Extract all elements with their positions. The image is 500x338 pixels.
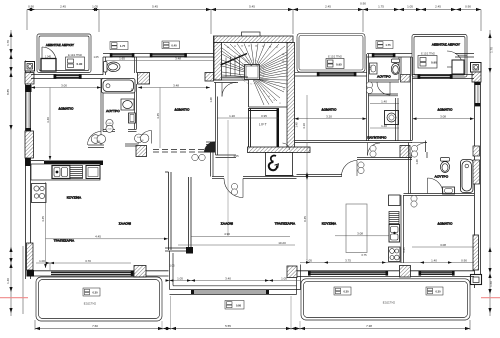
balcony right legends <box>334 287 443 295</box>
boiler room right <box>412 35 467 78</box>
hatched pier left middle <box>25 131 34 158</box>
dimension line bottom <box>35 320 470 330</box>
toilet lower right <box>440 158 449 173</box>
lower bathroom right walls <box>409 141 428 194</box>
hatched pier recess right <box>287 266 297 278</box>
bedroom1 bottom wall <box>44 161 103 166</box>
svg-text:0.95: 0.95 <box>261 114 267 118</box>
svg-text:ΛΟΥΤΡΟ: ΛΟΥΤΡΟ <box>106 109 120 113</box>
kitchen right island <box>346 204 367 253</box>
svg-text:5.55: 5.55 <box>225 324 231 328</box>
svg-text:ΛΕΒΗΤΑΣ ΑΕΡΙΟΥ: ΛΕΒΗΤΑΣ ΑΕΡΙΟΥ <box>46 43 74 47</box>
hatched pier bottom left-center <box>134 266 146 278</box>
bedroom1 dims <box>31 88 101 161</box>
balcony left dims <box>36 263 131 270</box>
lift dimension <box>217 117 279 119</box>
wall column box top-left <box>25 62 35 72</box>
svg-text:3.08: 3.08 <box>357 232 363 236</box>
svg-text:4.45: 4.45 <box>95 235 101 239</box>
dim line dining/kitchen <box>306 143 308 260</box>
svg-text:LIFT: LIFT <box>259 123 267 127</box>
svg-text:0.45: 0.45 <box>402 247 406 253</box>
svg-text:4.05: 4.05 <box>233 154 239 158</box>
svg-text:0.30: 0.30 <box>92 291 98 295</box>
small wall dims <box>93 55 419 268</box>
wardrobe dashed line bedroom2 <box>153 150 206 153</box>
stair numbers <box>227 46 286 106</box>
svg-text:1.20: 1.20 <box>229 114 235 118</box>
svg-text:2.45: 2.45 <box>60 5 66 9</box>
bedroom bottom-right walls <box>404 194 475 196</box>
hatched pier right of upper bath <box>401 75 411 83</box>
svg-text:7.38: 7.38 <box>366 324 372 328</box>
cooktop left <box>32 184 47 203</box>
boiler equipment box left <box>41 59 56 72</box>
svg-text:ΚΟΥΖΙΝΑ: ΚΟΥΖΙΝΑ <box>322 222 337 226</box>
boiler room left door <box>42 47 56 61</box>
bottom wall right apartment <box>297 271 475 277</box>
legend box boiler right <box>418 56 437 69</box>
balcony left legend <box>83 288 100 296</box>
laundry door badges <box>370 145 376 157</box>
svg-text:1.05: 1.05 <box>169 264 175 268</box>
bedroom3 walls <box>295 54 413 143</box>
hatched pier right middle <box>473 235 479 270</box>
hatched pier bottom right-center <box>400 266 411 278</box>
left apartment bedroom1 right wall <box>101 79 103 132</box>
svg-text:2.45: 2.45 <box>435 5 441 9</box>
lower bathroom door arc <box>411 143 427 159</box>
recess dims <box>170 236 301 280</box>
svg-text:3.40: 3.40 <box>225 276 231 280</box>
upper bathroom door badges <box>366 82 372 94</box>
legend box terrace <box>326 59 344 69</box>
laundry door arc <box>368 143 381 156</box>
svg-text:1.48: 1.48 <box>295 122 299 128</box>
legend box top 2 <box>162 41 180 49</box>
svg-text:1.40: 1.40 <box>381 124 387 128</box>
svg-text:1.40: 1.40 <box>368 65 372 71</box>
recess window band <box>191 290 269 295</box>
svg-text:3.40: 3.40 <box>46 117 50 123</box>
cabinet bathroom1 <box>129 113 136 123</box>
svg-text:1.75: 1.75 <box>385 43 391 47</box>
stairwell walls hatched <box>214 36 293 43</box>
svg-text:4.90: 4.90 <box>224 232 230 236</box>
svg-text:3.20: 3.20 <box>326 115 332 119</box>
washbasin bathroom1 <box>121 99 134 110</box>
bathroom1 door badges <box>91 119 113 143</box>
svg-text:4.45: 4.45 <box>156 113 160 119</box>
hall door arc 2 <box>342 161 358 177</box>
svg-text:3.70: 3.70 <box>85 259 91 263</box>
terrace bottom wall / bedroom3 top with window <box>295 72 367 76</box>
kitchen sink unit left <box>52 166 70 179</box>
bottom right dims <box>300 262 474 264</box>
upper bathroom right walls <box>369 57 402 82</box>
kitchen left counter row <box>31 164 100 180</box>
svg-text:ΤΡΑΠΕΖΑΡΙΑ: ΤΡΑΠΕΖΑΡΙΑ <box>54 239 75 243</box>
top wall left section with windows <box>103 54 214 58</box>
door arc stair to bedroom3 <box>283 143 290 150</box>
svg-text:3.08: 3.08 <box>440 115 446 119</box>
toilet bathroom1 <box>104 62 121 73</box>
recess step walls <box>170 251 297 295</box>
svg-text:0.40: 0.40 <box>171 43 177 47</box>
window bottom right 2 <box>421 271 453 275</box>
kitchen right sink <box>389 225 400 243</box>
right apartment entrance door arc <box>224 179 243 198</box>
hatched pier right top <box>472 72 481 82</box>
dimension line left <box>11 30 300 330</box>
kitchen/bedroom wall right <box>401 195 404 263</box>
svg-text:1.05: 1.05 <box>407 5 413 9</box>
fridge left <box>86 166 100 179</box>
lobby to salon wall with entrance door <box>212 177 297 179</box>
staircase center newel square <box>245 65 260 80</box>
hatched pier below stair left <box>205 73 214 82</box>
legend box boiler left <box>66 57 85 70</box>
washing machine <box>385 111 399 125</box>
window below boiler left <box>56 75 79 78</box>
recess right pier <box>269 265 301 295</box>
balcony left <box>36 277 162 321</box>
svg-text:0.80: 0.80 <box>108 123 112 125</box>
svg-text:0.45: 0.45 <box>303 216 307 222</box>
toilet upper right <box>391 59 399 75</box>
svg-text:0.90: 0.90 <box>465 5 471 9</box>
svg-text:1.65: 1.65 <box>119 57 125 61</box>
right apartment lobby walls <box>216 83 237 158</box>
center legend box <box>225 301 244 310</box>
hall right apartment walls <box>297 158 413 177</box>
svg-text:1.40: 1.40 <box>6 278 10 284</box>
svg-text:1.40: 1.40 <box>381 99 387 103</box>
hatched pier left top <box>25 73 34 85</box>
bottom wall left apartment with window <box>34 271 169 276</box>
svg-text:0.90: 0.90 <box>431 61 437 65</box>
svg-text:8.85: 8.85 <box>6 89 10 95</box>
bedroom3 dims <box>295 95 367 140</box>
door badge right entrance <box>231 183 237 195</box>
divider pier between salons <box>165 172 191 250</box>
hatched wall band below lift <box>248 147 311 153</box>
bedroom2 dims <box>105 60 213 148</box>
bedroom bottom-right door arc <box>428 178 444 194</box>
bathtub lower right <box>461 160 474 193</box>
svg-text:3.48: 3.48 <box>175 57 181 61</box>
legend box top 3 <box>376 41 393 49</box>
svg-text:0.90: 0.90 <box>360 2 366 6</box>
window left wall upper <box>27 92 30 128</box>
hatched pier next to bathroom1 <box>138 73 150 85</box>
wall column box balcony right <box>471 275 482 285</box>
svg-text:0.95: 0.95 <box>336 63 342 67</box>
svg-text:1.75: 1.75 <box>378 5 384 9</box>
svg-text:2.20: 2.20 <box>97 141 101 143</box>
svg-text:3.75: 3.75 <box>345 258 351 262</box>
bedroom bottom-right door badges <box>411 195 417 207</box>
dishwasher striped left <box>70 166 83 179</box>
svg-text:ΔΩΜΑΤΙΟ: ΔΩΜΑΤΙΟ <box>438 222 453 226</box>
laundry dims <box>370 104 399 129</box>
solid wall corner bottom-left <box>27 270 35 277</box>
wall column box top-right <box>471 63 482 73</box>
svg-text:5.45: 5.45 <box>249 5 255 9</box>
bathtub bathroom1 <box>102 79 136 94</box>
hatched pier hall right <box>400 146 410 158</box>
svg-text:ΔΩΜΑΤΙΟ: ΔΩΜΑΤΙΟ <box>59 107 74 111</box>
bedroom2 door badges <box>135 134 149 143</box>
kitchen right dim <box>335 235 389 237</box>
svg-text:ΛΟΥΤΡΟ: ΛΟΥΤΡΟ <box>435 175 449 179</box>
red marker line left <box>0 297 28 299</box>
window top-left 2 <box>152 54 185 57</box>
solid wall segment left <box>25 158 31 166</box>
svg-text:3.08: 3.08 <box>440 243 446 247</box>
svg-text:1.05: 1.05 <box>281 276 287 280</box>
closet with hook symbol <box>266 153 293 176</box>
svg-text:1.05: 1.05 <box>92 5 98 9</box>
boiler room left <box>37 34 91 73</box>
terrace room top right <box>297 34 365 73</box>
svg-text:ΛΕΒΗΤΑΣ ΑΕΡΙΟΥ: ΛΕΒΗΤΑΣ ΑΕΡΙΟΥ <box>432 43 460 47</box>
left apartment entrance door arc <box>222 83 236 97</box>
left apartment living dims <box>46 182 169 268</box>
lift shaft <box>249 109 279 149</box>
svg-text:2.20: 2.20 <box>140 140 144 142</box>
svg-text:Ε 12/2.7ΤΜ2: Ε 12/2.7ΤΜ2 <box>421 53 435 56</box>
dimension line right <box>489 30 491 316</box>
svg-text:1.70: 1.70 <box>130 88 134 94</box>
svg-text:1.00: 1.00 <box>39 259 45 263</box>
svg-text:4.45: 4.45 <box>41 216 45 222</box>
hall door badges 2 <box>358 162 364 174</box>
divider wall left apt / stairwell block <box>206 142 216 177</box>
svg-text:ΣΑΛΟΝΙ: ΣΑΛΟΝΙ <box>221 222 233 226</box>
svg-text:2.20: 2.20 <box>108 129 112 131</box>
svg-text:1.70: 1.70 <box>490 47 494 53</box>
svg-text:7.60: 7.60 <box>92 324 98 328</box>
outer wall right <box>475 63 481 289</box>
svg-text:1.60: 1.60 <box>489 281 493 287</box>
svg-text:1.48: 1.48 <box>415 159 419 165</box>
svg-text:ΔΩΜΑΤΙΟ: ΔΩΜΑΤΙΟ <box>322 108 337 112</box>
svg-text:1.05: 1.05 <box>306 258 312 262</box>
kitchen right cooktop <box>389 247 401 262</box>
svg-text:0.90: 0.90 <box>461 258 467 262</box>
svg-text:5.45: 5.45 <box>152 5 158 9</box>
top wall right section with window <box>367 54 412 58</box>
svg-text:1.00: 1.00 <box>137 137 141 139</box>
washbasin lower right <box>443 187 455 194</box>
boiler room right door <box>447 51 463 67</box>
hatched pier left lower <box>27 243 34 270</box>
svg-text:1.75: 1.75 <box>120 44 126 48</box>
bedroom4 left wall <box>411 57 413 141</box>
lower bathroom door badges <box>411 145 417 157</box>
bathroom1 walls <box>103 57 137 132</box>
svg-text:0.80: 0.80 <box>236 303 242 307</box>
svg-text:ΕΞΩΣΤΗΣ: ΕΞΩΣΤΗΣ <box>84 303 97 306</box>
svg-text:1.70: 1.70 <box>6 40 10 46</box>
upper bathroom door arc <box>377 82 390 95</box>
svg-text:ΠΛΥΝΤΗΡΙΟ: ΠΛΥΝΤΗΡΙΟ <box>367 136 387 140</box>
svg-text:4.10: 4.10 <box>302 123 306 129</box>
svg-text:3.48: 3.48 <box>173 83 179 87</box>
svg-text:0.90: 0.90 <box>77 62 83 66</box>
notch wall west of bathroom1 <box>103 57 106 75</box>
wall below boiler right with window <box>412 75 474 79</box>
bedroom2 door arc <box>139 131 152 144</box>
dimension line top <box>27 10 481 35</box>
svg-text:3.00: 3.00 <box>61 83 67 87</box>
top wall right of boiler right <box>455 54 474 58</box>
svg-text:ΔΩΜΑΤΙΟ: ΔΩΜΑΤΙΟ <box>175 108 190 112</box>
svg-text:10.20: 10.20 <box>278 241 286 245</box>
svg-text:0.90: 0.90 <box>28 5 34 9</box>
svg-text:0.30: 0.30 <box>343 290 349 294</box>
svg-text:Ε 12/2.7ΤΜ2: Ε 12/2.7ΤΜ2 <box>328 56 342 59</box>
svg-text:ΛΟΥΤΡΟ: ΛΟΥΤΡΟ <box>377 75 391 79</box>
dim extension line center <box>227 120 229 236</box>
legend box top 1 <box>110 42 128 50</box>
bedroom4 dims <box>413 118 475 120</box>
hatched wall strip right bath <box>473 146 480 156</box>
wall below boiler left with window <box>31 75 103 79</box>
svg-text:ΣΑΛΟΝΙ: ΣΑΛΟΝΙ <box>119 222 131 226</box>
svg-text:1.48: 1.48 <box>209 97 213 103</box>
red marker line right <box>481 297 500 299</box>
svg-text:1.05: 1.05 <box>93 55 99 59</box>
svg-text:1.40: 1.40 <box>431 258 437 262</box>
window top-left 1 <box>112 54 132 57</box>
boiler right small box <box>452 60 464 74</box>
stair landing wall left with door gap <box>214 80 238 83</box>
balcony right <box>301 279 470 320</box>
bedroom bottom-right dim <box>412 246 474 248</box>
left hall door dark leaf <box>204 142 215 153</box>
staircase winder treads <box>222 44 287 106</box>
svg-text:1.045: 1.045 <box>45 56 52 59</box>
bedroom1 door arc <box>88 132 102 146</box>
laundry wall right <box>396 98 399 141</box>
stairwell top small box <box>242 32 261 36</box>
svg-text:ΤΡΑΠΕΖΑΡΙΑ: ΤΡΑΠΕΖΑΡΙΑ <box>275 222 296 226</box>
outer wall left <box>26 61 31 280</box>
hall wall left apartment <box>88 144 139 148</box>
washbasin upper right <box>370 63 378 74</box>
svg-text:0.30: 0.30 <box>435 290 441 294</box>
dimension labels top <box>28 2 471 9</box>
svg-text:Ε 12/2.7ΤΜ2: Ε 12/2.7ΤΜ2 <box>68 54 82 57</box>
svg-text:1.05: 1.05 <box>177 276 183 280</box>
window bottom right 1 <box>310 271 386 275</box>
laundry top wall <box>369 94 399 96</box>
svg-text:1.00: 1.00 <box>94 138 98 140</box>
hatched pier hall left <box>136 146 147 157</box>
staircase lower flight boundary <box>214 36 288 108</box>
kitchen right counter strip <box>389 195 401 206</box>
left hall door badges <box>192 154 205 160</box>
svg-text:ΔΩΜΑΤΙΟ: ΔΩΜΑΤΙΟ <box>438 108 453 112</box>
svg-text:0.75: 0.75 <box>361 253 367 257</box>
svg-text:2.45: 2.45 <box>325 5 331 9</box>
window bottom left <box>51 272 131 276</box>
window right wall upper <box>476 84 479 103</box>
svg-text:ΕΞΩΣΤΗΣ: ΕΞΩΣΤΗΣ <box>383 302 396 305</box>
svg-text:ΚΟΥΖΙΝΑ: ΚΟΥΖΙΝΑ <box>67 196 82 200</box>
